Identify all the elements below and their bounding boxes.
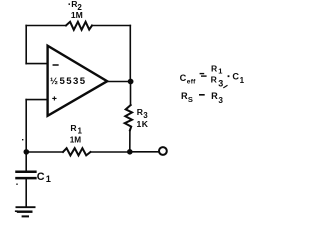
- junction output node: [128, 79, 134, 85]
- wire left vertical lower: [25, 100, 27, 152]
- ground: [16, 207, 35, 216]
- svg-text:C: C: [180, 73, 187, 83]
- svg-text:½5535: ½5535: [50, 76, 87, 87]
- svg-text:C: C: [37, 171, 45, 183]
- svg-text:1: 1: [240, 76, 245, 85]
- label C1: [16, 171, 51, 185]
- wire inverting input: [26, 63, 47, 65]
- svg-text:1M: 1M: [70, 135, 82, 144]
- inverting input minus mark: [53, 64, 58, 66]
- svg-text:S: S: [188, 95, 193, 104]
- svg-text:1: 1: [78, 127, 83, 136]
- wire R3 to bottom node: [129, 130, 131, 151]
- label R3: [137, 107, 149, 120]
- capacitor C1: [17, 172, 36, 178]
- output terminal: [159, 147, 167, 155]
- resistor R2: [66, 22, 92, 30]
- wire bottom right segment: [91, 151, 131, 153]
- wire to output terminal: [130, 151, 158, 153]
- wire output node to R3: [130, 82, 132, 106]
- svg-text:3: 3: [218, 96, 223, 105]
- non-inverting input plus mark: [53, 97, 56, 100]
- svg-text:1M: 1M: [71, 10, 83, 20]
- svg-text:R: R: [70, 123, 77, 133]
- wire top left segment: [26, 25, 66, 27]
- svg-text:R: R: [211, 75, 218, 85]
- label R1: [70, 123, 82, 136]
- svg-text:R: R: [211, 64, 218, 74]
- wire top right segment: [92, 25, 130, 27]
- op-amp U1 half 5535: [48, 46, 108, 116]
- svg-text:1: 1: [46, 174, 51, 184]
- svg-text:1K: 1K: [137, 119, 149, 129]
- junction node output bottom: [127, 149, 133, 155]
- wire left vertical upper: [25, 26, 27, 64]
- junction node bottom left: [24, 149, 30, 155]
- svg-text:C: C: [232, 72, 239, 82]
- wire C1 to ground: [25, 179, 27, 206]
- wire bottom left segment: [26, 151, 63, 153]
- svg-text:R: R: [211, 91, 218, 101]
- svg-text:eff: eff: [187, 78, 196, 85]
- wire op-amp output: [107, 81, 130, 83]
- wire right vertical feedback: [129, 26, 131, 82]
- wire non-inverting input: [26, 99, 47, 101]
- equation Ceff = R1/R3 * C1: [180, 64, 245, 89]
- resistor R1: [63, 148, 91, 155]
- wire junction to C1: [25, 152, 27, 171]
- resistor R3: [125, 105, 132, 130]
- svg-text:1: 1: [218, 67, 222, 76]
- equation RS = R3: [181, 86, 227, 105]
- svg-text:3: 3: [218, 78, 223, 88]
- label R2: [69, 0, 83, 12]
